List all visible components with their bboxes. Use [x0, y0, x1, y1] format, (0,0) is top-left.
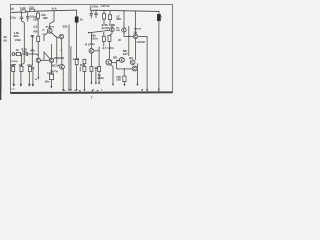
- svg-text:250v: 250v: [98, 76, 105, 80]
- svg-text:2N3055: 2N3055: [54, 56, 65, 60]
- svg-text:356: 356: [116, 17, 121, 21]
- svg-text:25v: 25v: [45, 79, 50, 83]
- svg-text:180: 180: [116, 78, 121, 82]
- svg-text:o: o: [110, 58, 112, 62]
- svg-text:BD: BD: [113, 56, 117, 60]
- svg-text:4W: 4W: [63, 89, 66, 92]
- svg-text:W: W: [74, 89, 76, 92]
- svg-text:10μ: 10μ: [27, 63, 32, 67]
- svg-text:4k7: 4k7: [10, 63, 15, 67]
- svg-text:100μ: 100μ: [47, 71, 54, 75]
- svg-text:15v: 15v: [33, 17, 38, 21]
- svg-text:47k: 47k: [30, 48, 35, 52]
- svg-text:0,1v: 0,1v: [89, 42, 95, 46]
- svg-text:22k: 22k: [43, 16, 48, 20]
- svg-text:BC547B: BC547B: [46, 26, 55, 29]
- svg-text:06: 06: [4, 39, 8, 43]
- svg-text:BSX45: BSX45: [134, 28, 142, 31]
- svg-text:4,7μ: 4,7μ: [10, 16, 16, 20]
- svg-text:100n: 100n: [91, 36, 98, 40]
- svg-text:+47 5v: +47 5v: [101, 4, 110, 8]
- svg-text:100n: 100n: [15, 38, 22, 42]
- svg-text:2x BC: 2x BC: [102, 26, 111, 30]
- svg-text:Lw: Lw: [12, 88, 15, 91]
- svg-text:~100nF: ~100nF: [135, 40, 145, 44]
- svg-text:2,2: 2,2: [33, 25, 37, 29]
- svg-text:R L: R L: [85, 43, 90, 47]
- svg-text:10 50v: 10 50v: [90, 4, 99, 8]
- svg-text:237: 237: [123, 52, 128, 56]
- svg-text:2,2Ω: 2,2Ω: [73, 57, 80, 61]
- svg-text:25v: 25v: [22, 49, 27, 53]
- svg-text:2N: 2N: [129, 56, 133, 60]
- svg-text:SI: SI: [118, 38, 121, 42]
- svg-text:a): a): [11, 7, 14, 11]
- svg-text:BC547: BC547: [52, 63, 61, 67]
- svg-text:120: 120: [29, 5, 34, 9]
- svg-text:1k: 1k: [16, 48, 20, 52]
- svg-text:8Ω: 8Ω: [80, 63, 85, 67]
- svg-text:1k: 1k: [19, 63, 23, 67]
- svg-text:1,2k: 1,2k: [20, 6, 26, 10]
- svg-text:4,7 100n: 4,7 100n: [102, 46, 114, 50]
- svg-text:1k: 1k: [80, 17, 84, 21]
- svg-text:22k: 22k: [63, 25, 68, 29]
- svg-text:2N: 2N: [133, 30, 137, 34]
- svg-text:47k: 47k: [33, 29, 38, 33]
- svg-text:A.A: A.A: [51, 7, 57, 11]
